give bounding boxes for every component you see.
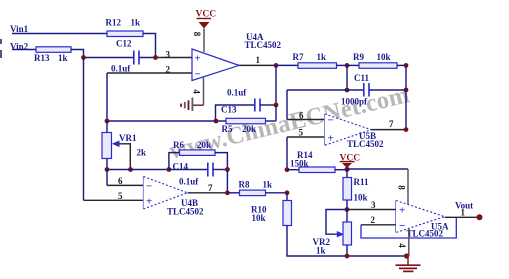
wire node B to U4A pin3 <box>156 57 193 59</box>
svg-text:1k: 1k <box>263 180 273 190</box>
wire U5A output <box>445 216 480 218</box>
wire column to U4B output <box>226 170 228 193</box>
op-amp U4B <box>144 177 188 210</box>
wire U4B pin6 <box>107 184 144 186</box>
wire U4A output <box>239 64 276 66</box>
svg-text:10k: 10k <box>354 193 368 203</box>
wire VR2 bottom stub <box>346 245 348 256</box>
wire R6 right riser <box>215 153 227 170</box>
watermark www.ChinaECNet.com <box>167 81 414 166</box>
resistor R13 <box>36 47 71 53</box>
junction VR1 bottom <box>105 167 110 172</box>
svg-text:R9: R9 <box>353 52 364 62</box>
wire R7 right stub <box>337 64 348 66</box>
power VCC U5A <box>340 154 361 169</box>
svg-text:R6: R6 <box>173 140 184 150</box>
junction U4A output <box>274 63 279 68</box>
wire R8 left stub <box>227 192 239 194</box>
junction node B <box>153 55 158 60</box>
svg-text:0.1uf: 0.1uf <box>179 177 199 187</box>
wire U5B pin5 column down <box>286 137 288 170</box>
junction C14 right <box>225 167 230 172</box>
junction C11 left <box>345 88 350 93</box>
op-amp U5A <box>396 201 445 233</box>
junction C11 right <box>404 88 409 93</box>
wiper VR2 arrow <box>337 231 344 237</box>
wire U5B pin6 <box>287 119 325 121</box>
wire R9 left stub <box>347 64 359 66</box>
wire right column x406 <box>405 65 407 129</box>
svg-text:4: 4 <box>397 243 407 248</box>
svg-text:−: − <box>328 115 334 127</box>
resistor R10 <box>283 201 292 226</box>
resistor R11 <box>343 178 352 201</box>
svg-text:7: 7 <box>389 119 394 129</box>
wire U4B pin5 <box>84 199 144 201</box>
svg-text:4: 4 <box>192 89 202 94</box>
svg-text:3: 3 <box>166 50 171 60</box>
svg-text:C12: C12 <box>116 39 132 49</box>
wire C14 row <box>169 169 207 171</box>
junction C13 right <box>274 103 279 108</box>
junction R6 C14 left <box>167 167 172 172</box>
wire C13 row left <box>216 105 255 121</box>
op-amp U4A <box>192 49 239 81</box>
junction R8 R10 <box>285 190 290 195</box>
power VCC U4A <box>196 10 217 29</box>
junction node A <box>81 55 86 60</box>
resistor R6 <box>180 150 216 156</box>
terminal Vout <box>477 214 483 220</box>
svg-text:8: 8 <box>192 32 202 37</box>
wire R5 left stub <box>216 120 226 122</box>
svg-text:6: 6 <box>118 176 123 186</box>
wire node A to C12 <box>84 57 134 59</box>
junction R14 left <box>285 167 290 172</box>
svg-text:1000pf: 1000pf <box>341 97 368 107</box>
potentiometer VR2 <box>343 222 352 245</box>
svg-text:TLC4502: TLC4502 <box>167 207 204 217</box>
svg-text:+: + <box>195 53 201 65</box>
svg-text:1k: 1k <box>131 18 141 28</box>
svg-text:5: 5 <box>299 128 304 138</box>
junction R7 R9 <box>345 63 350 68</box>
svg-text:1: 1 <box>256 55 261 65</box>
svg-text:Vout: Vout <box>455 201 473 211</box>
resistor R7 <box>298 63 337 69</box>
wire U5A pin3 <box>347 209 396 211</box>
wire C11 row left <box>287 89 363 91</box>
capacitor C14 <box>208 163 213 177</box>
svg-text:TLC4502: TLC4502 <box>347 139 384 149</box>
wire C14 right stub <box>213 169 227 171</box>
wire pin6 riser <box>106 170 108 186</box>
wire U5B output <box>371 129 406 131</box>
wire U5A feedback loop <box>361 217 456 238</box>
wire U5A pin8 <box>407 169 409 205</box>
svg-text:R13: R13 <box>34 53 50 63</box>
resistor R14 <box>299 167 335 173</box>
wire left column x83 <box>83 58 85 201</box>
resistor R9 <box>359 63 397 69</box>
svg-text:2k: 2k <box>137 148 147 158</box>
junction U5B output <box>404 127 409 132</box>
wiper VR1 arrow <box>112 141 131 170</box>
svg-text:6: 6 <box>299 111 304 121</box>
svg-text:150k: 150k <box>290 159 309 169</box>
ground earth <box>396 256 421 271</box>
svg-text:+: + <box>146 196 152 208</box>
wire U4A pin8 <box>203 29 205 53</box>
svg-text:10k: 10k <box>252 213 266 223</box>
svg-text:20k: 20k <box>242 124 256 134</box>
wire C13 to output column <box>260 104 276 106</box>
wire C12 to node B <box>139 57 156 59</box>
wire R6 left riser <box>169 153 180 170</box>
wire R10 top stub <box>286 193 288 201</box>
svg-text:20k: 20k <box>197 140 211 150</box>
resistor R5 <box>226 118 266 124</box>
svg-text:7: 7 <box>208 183 213 193</box>
svg-text:2: 2 <box>166 65 171 75</box>
svg-text:1k: 1k <box>58 53 68 63</box>
wire VR1 bottom stub <box>106 159 108 170</box>
svg-text:R7: R7 <box>293 52 304 62</box>
svg-text:R5: R5 <box>222 124 233 134</box>
junction R9 right <box>404 63 409 68</box>
wire R5 right stub <box>266 120 277 122</box>
wire Vin2 to R13 <box>12 49 36 51</box>
capacitor C12 <box>134 51 139 65</box>
wire VCC row to pin8 <box>347 168 408 170</box>
svg-text:−: − <box>399 220 405 232</box>
svg-text:C11: C11 <box>354 73 370 83</box>
junction R14 VCC R11 <box>344 167 349 172</box>
junction C13 R5 left <box>214 119 219 124</box>
svg-text:C14: C14 <box>173 162 189 172</box>
capacitor C13 <box>255 99 260 112</box>
wire pin4 to ground <box>192 104 203 106</box>
wire U4A pin4 <box>203 77 205 105</box>
junction ground rail <box>404 253 409 258</box>
svg-text:R12: R12 <box>106 18 122 28</box>
wire R9 right stub <box>397 64 406 66</box>
wire output column down <box>275 65 277 121</box>
wire U4A pin2 <box>107 72 192 74</box>
svg-text:5: 5 <box>118 191 123 201</box>
svg-text:Vin1: Vin1 <box>10 24 29 34</box>
svg-text:R8: R8 <box>239 180 250 190</box>
edge artifact marks <box>0 39 2 58</box>
wire R12 right to node <box>143 34 156 58</box>
op-amp U5B <box>325 114 372 145</box>
wire R8 right stub <box>266 192 288 194</box>
wire VR1 top stub <box>106 121 108 133</box>
wire feedback row y121 <box>107 120 216 122</box>
wire U5B pin6 drop <box>286 90 288 120</box>
wire C11 riser from R7R9 node <box>346 65 348 90</box>
wire R11 top stub <box>346 169 348 178</box>
wire pin2 column down <box>106 73 108 121</box>
wire Vin1 to R12 <box>12 33 107 35</box>
wire R14 left stub <box>287 169 299 171</box>
wire R11 bottom stub <box>346 200 348 210</box>
svg-text:1k: 1k <box>316 246 326 256</box>
wire R14 right stub <box>335 169 347 171</box>
potentiometer VR1 <box>102 133 112 159</box>
svg-text:0.1uf: 0.1uf <box>227 88 247 98</box>
ground U4A analog <box>181 98 192 112</box>
svg-text:C13: C13 <box>221 105 237 115</box>
wire VR2 wiper loop <box>326 210 347 235</box>
svg-text:VR1: VR1 <box>119 133 137 143</box>
wire R10 bottom to rail <box>287 226 407 257</box>
resistor R8 <box>240 190 266 196</box>
resistor R12 <box>107 31 143 37</box>
svg-text:0.1uf: 0.1uf <box>111 64 131 74</box>
junction U4B output <box>225 190 230 195</box>
junction VR1 wiper <box>128 167 133 172</box>
svg-text:3: 3 <box>371 200 376 210</box>
wire R7 left stub <box>276 64 298 66</box>
junction R11 VR2 <box>345 207 350 212</box>
svg-text:+: + <box>328 133 334 145</box>
wire U5A pin2 <box>361 224 396 226</box>
svg-text:+: + <box>399 205 405 217</box>
capacitor C11 <box>364 83 369 97</box>
svg-text:R11: R11 <box>354 177 370 187</box>
junction VR1 top <box>105 119 110 124</box>
svg-text:2: 2 <box>371 215 376 225</box>
wire U4B output <box>188 192 228 194</box>
wire VR2 top stub <box>346 210 348 223</box>
svg-text:−: − <box>146 181 152 193</box>
svg-text:8: 8 <box>397 185 407 190</box>
wire U5A pin4 <box>408 228 410 256</box>
svg-text:TLC4502: TLC4502 <box>245 40 282 50</box>
junction VR2 bottom <box>345 254 350 259</box>
wire rail y169 left <box>107 169 169 171</box>
wire R13 right to node A <box>71 50 84 58</box>
svg-text:TLC4502: TLC4502 <box>407 229 444 239</box>
svg-text:10k: 10k <box>377 52 391 62</box>
wire C11 right stub <box>369 89 406 91</box>
wire U5B pin5 <box>287 136 325 138</box>
svg-text:−: − <box>195 69 201 81</box>
svg-text:1k: 1k <box>317 52 327 62</box>
